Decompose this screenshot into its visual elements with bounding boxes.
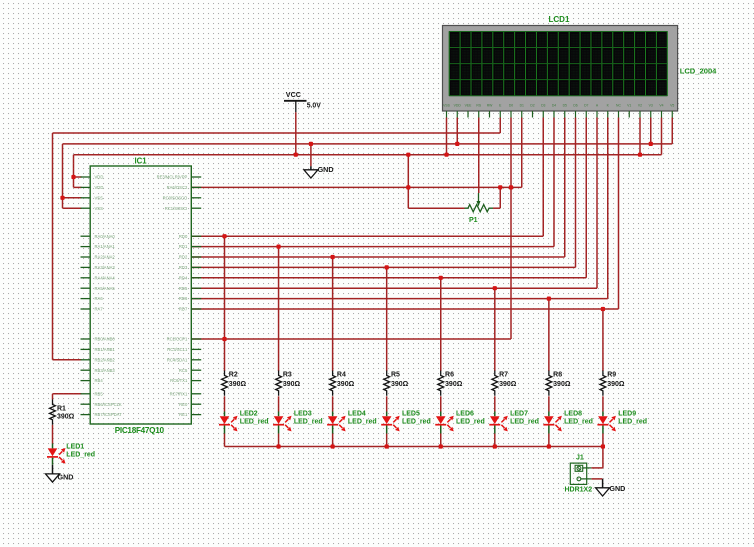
svg-text:VEE: VEE — [465, 104, 473, 108]
svg-text:D6: D6 — [573, 104, 577, 108]
svg-text:R5: R5 — [391, 372, 400, 379]
wire LED column 5 — [386, 267, 388, 371]
svg-text:RB2/ANB2: RB2/ANB2 — [95, 357, 116, 362]
svg-text:R2: R2 — [229, 372, 238, 379]
svg-text:VSS: VSS — [95, 206, 104, 211]
svg-text:LED6: LED6 — [456, 411, 474, 418]
svg-text:PIC18F47Q10: PIC18F47Q10 — [115, 426, 165, 435]
svg-text:LED_red: LED_red — [66, 452, 95, 459]
svg-text:LED_red: LED_red — [510, 419, 539, 426]
svg-text:RA6: RA6 — [95, 296, 104, 301]
svg-text:390Ω: 390Ω — [553, 381, 571, 388]
svg-text:RB5: RB5 — [95, 391, 104, 396]
wire net RD2 — [191, 256, 565, 258]
svg-text:RE3/MCLR/VPP: RE3/MCLR/VPP — [157, 175, 188, 180]
wire P1 left branch — [407, 155, 409, 209]
svg-text:D4: D4 — [552, 104, 556, 108]
svg-text:LED5: LED5 — [402, 411, 420, 418]
svg-text:RB7/ICSPDAT: RB7/ICSPDAT — [95, 412, 123, 417]
wire net RD5 — [191, 287, 597, 289]
svg-text:390Ω: 390Ω — [229, 381, 247, 388]
LED1 LED_red — [48, 448, 58, 456]
svg-text:V5: V5 — [670, 104, 674, 108]
svg-text:V1: V1 — [627, 104, 631, 108]
svg-text:R9: R9 — [607, 372, 616, 379]
wire cathode bus — [225, 446, 603, 448]
svg-text:LED_red: LED_red — [564, 419, 593, 426]
svg-text:390Ω: 390Ω — [607, 381, 625, 388]
svg-text:RB4: RB4 — [95, 378, 104, 383]
svg-text:NC: NC — [616, 104, 621, 108]
op-amp :: IC U1 PIC18F47Q10 body — [90, 166, 191, 424]
LED6 LED_red — [436, 416, 446, 424]
resistor R4 390ohm — [330, 371, 336, 396]
svg-text:GND: GND — [318, 165, 334, 174]
svg-text:RC5: RC5 — [179, 368, 188, 373]
wire net E : left loop to LCD pin6 — [53, 132, 501, 134]
LED2 LED_red — [220, 416, 230, 424]
wire LED column 3 — [278, 247, 280, 371]
svg-text:RA3/ANA3: RA3/ANA3 — [95, 265, 116, 270]
LED4 LED_red — [328, 416, 338, 424]
svg-text:RC3/SCL1: RC3/SCL1 — [167, 347, 188, 352]
svg-text:IC1: IC1 — [135, 156, 148, 165]
LCD1 character grid — [449, 32, 667, 96]
svg-text:RS: RS — [476, 104, 481, 108]
wire LED column 7 — [494, 288, 496, 371]
LED7 LED_red — [490, 416, 500, 424]
svg-text:RB3/ANB3: RB3/ANB3 — [95, 368, 116, 373]
wire R1 branch — [53, 393, 82, 395]
svg-text:5.0V: 5.0V — [307, 102, 322, 109]
LCD1 pin stubs — [446, 111, 448, 118]
svg-text:RD4: RD4 — [179, 275, 188, 280]
wire P1 right branch — [493, 207, 500, 209]
svg-text:RD3: RD3 — [179, 265, 188, 270]
svg-text:RE1: RE1 — [179, 412, 188, 417]
wire net VCC distribution — [74, 154, 662, 156]
svg-text:LED_red: LED_red — [348, 419, 377, 426]
svg-text:LED4: LED4 — [348, 411, 366, 418]
svg-text:J1: J1 — [576, 455, 584, 462]
svg-text:LED_red: LED_red — [294, 419, 323, 426]
wire net RD7 — [191, 308, 618, 310]
svg-text:LED7: LED7 — [510, 411, 528, 418]
IC1 pins left — [81, 176, 91, 178]
svg-text:R6: R6 — [445, 372, 454, 379]
svg-text:390Ω: 390Ω — [283, 381, 301, 388]
wire LED column 9 — [602, 309, 604, 371]
ground symbol center — [304, 170, 318, 178]
svg-text:VDD: VDD — [454, 104, 462, 108]
svg-text:D3: D3 — [541, 104, 545, 108]
wire net RD3 — [191, 266, 575, 268]
svg-text:LED1: LED1 — [66, 444, 84, 451]
svg-text:RA1/ANA1: RA1/ANA1 — [95, 244, 116, 249]
svg-text:390Ω: 390Ω — [337, 381, 355, 388]
svg-text:V3: V3 — [649, 104, 653, 108]
svg-text:LED8: LED8 — [564, 411, 582, 418]
power VCC symbol — [284, 100, 307, 102]
svg-text:RB6/ICSPCLK: RB6/ICSPCLK — [95, 402, 122, 407]
svg-text:VDD: VDD — [95, 185, 104, 190]
svg-text:RC6/TX1: RC6/TX1 — [170, 378, 188, 383]
svg-text:LED3: LED3 — [294, 411, 312, 418]
svg-text:GND: GND — [609, 484, 625, 493]
svg-text:RB0/ANB0: RB0/ANB0 — [95, 337, 116, 342]
resistor R3 390ohm — [276, 371, 282, 396]
svg-text:P1: P1 — [469, 217, 478, 224]
svg-text:R3: R3 — [283, 372, 292, 379]
svg-text:D7: D7 — [584, 104, 588, 108]
svg-text:390Ω: 390Ω — [445, 381, 463, 388]
LED5 LED_red — [382, 416, 392, 424]
LCD1 screen — [449, 32, 667, 96]
resistor R2 390ohm — [222, 371, 228, 396]
resistor R1 390ohm — [50, 400, 56, 425]
svg-text:LED_red: LED_red — [402, 419, 431, 426]
svg-text:VDD: VDD — [95, 175, 104, 180]
resistor R5 390ohm — [384, 371, 390, 396]
svg-text:RC0/SOSCO: RC0/SOSCO — [163, 195, 188, 200]
svg-text:RA2/ANA2: RA2/ANA2 — [95, 255, 116, 260]
svg-text:D2: D2 — [530, 104, 534, 108]
resistor R8 390ohm — [546, 371, 552, 396]
svg-text:RD5: RD5 — [179, 286, 188, 291]
svg-text:RD0: RD0 — [179, 234, 188, 239]
svg-text:LED_red: LED_red — [618, 419, 647, 426]
svg-text:RA6/OSC2: RA6/OSC2 — [167, 185, 188, 190]
svg-text:LED9: LED9 — [618, 411, 636, 418]
potentiometer P1 — [465, 205, 494, 212]
svg-text:D0: D0 — [509, 104, 513, 108]
svg-text:R8: R8 — [553, 372, 562, 379]
svg-text:GND: GND — [58, 472, 74, 481]
svg-text:RC7/RX1: RC7/RX1 — [170, 391, 188, 396]
LED9 LED_red — [598, 416, 608, 424]
svg-text:V2: V2 — [638, 104, 642, 108]
svg-text:RA7: RA7 — [95, 307, 104, 312]
svg-text:D5: D5 — [563, 104, 567, 108]
svg-text:R1: R1 — [57, 405, 66, 412]
wire P1 wiper riser — [478, 118, 480, 194]
svg-text:R7: R7 — [499, 372, 508, 379]
svg-text:RA5/ANA5: RA5/ANA5 — [95, 286, 116, 291]
ground symbol bottom-left — [46, 474, 60, 482]
wire J1 pin2 to ground — [591, 478, 602, 480]
svg-text:RD1: RD1 — [179, 244, 188, 249]
svg-text:RA0/ANA0: RA0/ANA0 — [95, 234, 116, 239]
LED3 LED_red — [274, 416, 284, 424]
svg-text:R4: R4 — [337, 372, 346, 379]
svg-text:V4: V4 — [659, 104, 663, 108]
svg-text:VSS: VSS — [95, 195, 104, 200]
svg-text:LED_red: LED_red — [456, 419, 485, 426]
LED8 LED_red — [544, 416, 554, 424]
wire bus to J1 pin1 — [602, 447, 604, 468]
LCD1 display body — [443, 26, 678, 112]
svg-text:RA4/ANA4: RA4/ANA4 — [95, 275, 116, 280]
svg-text:RD2: RD2 — [179, 255, 188, 260]
svg-text:390Ω: 390Ω — [391, 381, 409, 388]
wire net RD0 — [191, 235, 543, 237]
svg-text:RC4/SDA1: RC4/SDA1 — [167, 357, 188, 362]
svg-text:HDR1X2: HDR1X2 — [565, 487, 593, 494]
svg-text:D1: D1 — [520, 104, 524, 108]
resistor R7 390ohm — [492, 371, 498, 396]
svg-text:RC2/CCP1: RC2/CCP1 — [167, 337, 188, 342]
wire LED column 4 — [332, 257, 334, 371]
svg-text:RD6: RD6 — [179, 296, 188, 301]
svg-text:VCC: VCC — [286, 90, 301, 99]
wire net GND top distribution — [63, 143, 673, 145]
wire net VDD/P1 row y=187 — [191, 186, 522, 188]
svg-text:VSS: VSS — [443, 104, 451, 108]
svg-text:390Ω: 390Ω — [499, 381, 517, 388]
IC1 pins right — [191, 176, 201, 178]
resistor R9 390ohm — [600, 371, 606, 396]
wire net RD6 — [191, 298, 608, 300]
wire LED column 2 — [224, 236, 226, 371]
svg-text:RW: RW — [487, 104, 493, 108]
wire LED column 6 — [440, 278, 442, 371]
svg-text:LCD1: LCD1 — [549, 15, 570, 24]
svg-text:RC1/SOSCI: RC1/SOSCI — [165, 206, 188, 211]
svg-text:390Ω: 390Ω — [57, 414, 75, 421]
wire net RD4 — [191, 277, 586, 279]
svg-text:RD7: RD7 — [179, 307, 188, 312]
svg-text:LED2: LED2 — [240, 411, 258, 418]
wire LED column 8 — [548, 299, 550, 371]
svg-text:RB1/ANB1: RB1/ANB1 — [95, 347, 116, 352]
svg-text:LCD_2004: LCD_2004 — [680, 66, 717, 75]
wire net RE row y=339 to LCD pin7 — [191, 338, 511, 340]
svg-text:RE0: RE0 — [179, 402, 188, 407]
svg-text:LED_red: LED_red — [240, 419, 269, 426]
connector J1 HDR1X2 — [570, 463, 586, 484]
wire net RD1 — [191, 246, 554, 248]
junction dots — [222, 234, 226, 238]
resistor R6 390ohm — [438, 371, 444, 396]
ground symbol J1 — [596, 488, 610, 496]
